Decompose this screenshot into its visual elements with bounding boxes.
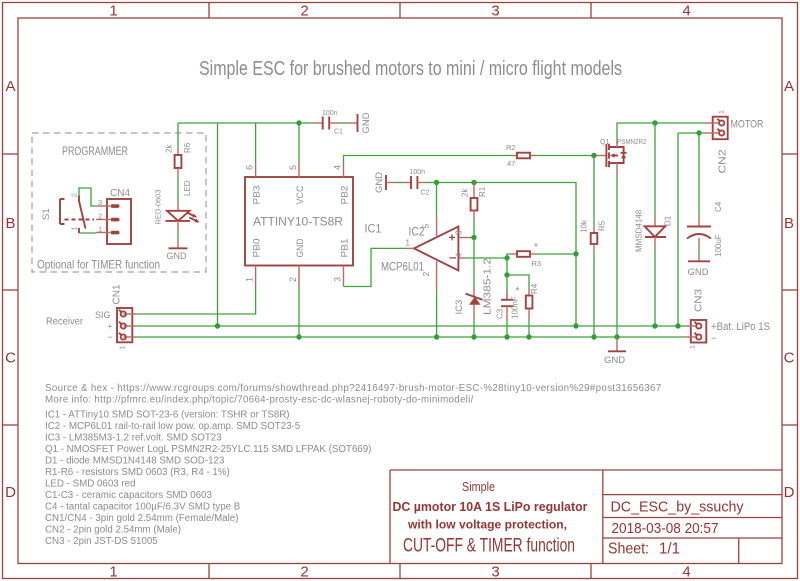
wire minus input node — [466, 254, 511, 258]
svg-text:CN4: CN4 — [110, 188, 130, 199]
junction motor minus bus — [675, 323, 680, 328]
svg-text:4: 4 — [682, 564, 690, 581]
svg-text:100nF: 100nF — [511, 296, 520, 319]
svg-text:D1: D1 — [664, 215, 673, 226]
svg-text:DC_ESC_by_ssuchy: DC_ESC_by_ssuchy — [611, 499, 744, 516]
IC1 ATtiny10 — [245, 163, 382, 287]
svg-text:5: 5 — [421, 224, 431, 229]
svg-text:GND: GND — [167, 251, 188, 261]
svg-text:2: 2 — [300, 3, 308, 20]
svg-text:−: − — [711, 334, 717, 345]
junction D1 bottom — [652, 323, 657, 328]
junction VCC link bus — [573, 323, 578, 328]
capacitor C2 — [395, 169, 437, 197]
svg-text:4: 4 — [333, 165, 343, 170]
capacitor C4 — [687, 201, 723, 257]
svg-text:CN1/CN4 - 3pin gold 2.54mm (Fe: CN1/CN4 - 3pin gold 2.54mm (Female/Male) — [45, 513, 238, 524]
svg-text:D1 - diode MMSD1N4148 SMD SOD-: D1 - diode MMSD1N4148 SMD SOD-123 — [45, 456, 224, 467]
connector CN2 motor — [705, 110, 764, 174]
svg-text:4: 4 — [682, 3, 690, 20]
wire rail to IC1 pin6 — [255, 123, 257, 163]
svg-text:2: 2 — [72, 193, 79, 197]
svg-text:PROGRAMMER: PROGRAMMER — [62, 144, 128, 158]
svg-text:IC1: IC1 — [365, 222, 382, 236]
diode D1 — [635, 123, 673, 326]
svg-text:*: * — [516, 286, 520, 297]
svg-text:CN1: CN1 — [112, 284, 123, 304]
svg-text:RED-0603: RED-0603 — [154, 189, 163, 224]
svg-text:3: 3 — [491, 564, 499, 581]
svg-text:1: 1 — [245, 277, 255, 282]
svg-text:2: 2 — [300, 564, 308, 581]
svg-text:Simple: Simple — [462, 480, 495, 494]
svg-text:R1: R1 — [478, 186, 487, 197]
svg-text:CUT-OFF & TIMER function: CUT-OFF & TIMER function — [403, 536, 575, 557]
svg-text:IC3: IC3 — [454, 300, 465, 315]
svg-text:1/1: 1/1 — [659, 541, 680, 558]
connector CN1 — [46, 284, 136, 349]
wire IC1 pin4 to gate net — [344, 156, 512, 164]
wire motor minus vertical — [677, 133, 679, 326]
junction R4 gnd — [526, 334, 531, 339]
junction C3 gnd — [504, 334, 509, 339]
ground below LED — [167, 238, 188, 261]
resistor R4 — [526, 283, 539, 337]
svg-text:A: A — [784, 78, 794, 95]
svg-text:10k: 10k — [580, 219, 589, 233]
svg-text:1: 1 — [690, 345, 697, 349]
junction C1/VCC — [296, 120, 301, 125]
junction Q1 source gnd — [614, 334, 619, 339]
resistor R5 — [580, 219, 607, 337]
svg-text:1: 1 — [719, 110, 726, 114]
wire R2 to gate junction — [536, 155, 596, 157]
wire IC1 pin2 to GND rail — [298, 286, 300, 337]
mosfet Q1 — [596, 139, 647, 177]
wire S1 top to CN4 pin3 — [79, 188, 96, 206]
zener IC3 LM385 — [454, 257, 494, 337]
wire rail to IC1 pin5 — [298, 123, 300, 163]
svg-text:PB0: PB0 — [252, 239, 263, 258]
junction R3 right / VCC link — [573, 251, 578, 256]
wire VCC link down to + bus — [575, 254, 577, 326]
svg-text:LM385-1.2: LM385-1.2 — [483, 257, 494, 315]
svg-text:Q1 - NMOSFET Power LogL PSMN2: Q1 - NMOSFET Power LogL PSMN2R2-25YLC.11… — [45, 444, 371, 455]
svg-text:DC µmotor 10A 1S LiPo regulat: DC µmotor 10A 1S LiPo regulator — [393, 500, 588, 514]
svg-text:1: 1 — [120, 346, 127, 350]
svg-text:VCC: VCC — [295, 185, 306, 204]
svg-text:R4: R4 — [530, 283, 539, 294]
svg-text:GND: GND — [604, 355, 625, 366]
svg-text:MOTOR: MOTOR — [731, 119, 764, 131]
ground at GND rail — [604, 337, 626, 366]
svg-text:−: − — [107, 332, 112, 342]
svg-text:3: 3 — [491, 3, 499, 20]
capacitor C1 — [299, 110, 348, 136]
ground at C2 — [374, 172, 395, 193]
wire C4 feed — [698, 133, 700, 216]
svg-text:2k: 2k — [461, 188, 470, 197]
svg-text:C3: C3 — [496, 308, 505, 319]
svg-text:2018-03-08 20:57: 2018-03-08 20:57 — [612, 521, 719, 537]
junction plus input node — [471, 235, 476, 240]
svg-text:2k: 2k — [165, 144, 174, 153]
svg-text:6: 6 — [245, 165, 255, 170]
svg-text:LED - SMD 0603 red: LED - SMD 0603 red — [45, 479, 136, 490]
svg-text:A: A — [5, 78, 15, 95]
capacitor C3 — [496, 275, 520, 337]
svg-text:PB2: PB2 — [340, 186, 351, 205]
wire IC2 pin5 — [436, 183, 438, 217]
svg-text:MMSD4148: MMSD4148 — [635, 209, 644, 252]
wire node to R4 — [507, 275, 529, 288]
svg-text:PB3: PB3 — [252, 186, 263, 205]
wire Q1 drain to motor rail — [617, 123, 705, 139]
svg-text:3: 3 — [98, 198, 102, 207]
LED — [154, 180, 201, 231]
svg-text:C: C — [784, 350, 795, 367]
resistor R6 — [165, 142, 193, 176]
svg-text:C2: C2 — [421, 190, 430, 197]
NOTES TEXT — [45, 383, 662, 547]
svg-text:LED: LED — [183, 180, 192, 196]
svg-text:Optional for TIMER function: Optional for TIMER function — [37, 258, 160, 272]
junction VCC feed — [215, 323, 220, 328]
svg-text:1: 1 — [72, 227, 79, 231]
programmer dashed box — [32, 133, 206, 272]
svg-text:+Bat. LiPo 1S: +Bat. LiPo 1S — [711, 321, 770, 333]
svg-text:2: 2 — [421, 272, 431, 277]
wire R6 to LED — [177, 176, 179, 201]
svg-text:CN2 - 2pin gold 2.54mm (Male): CN2 - 2pin gold 2.54mm (Male) — [45, 525, 181, 536]
svg-text:GND: GND — [361, 112, 372, 133]
svg-text:5: 5 — [288, 165, 298, 170]
wire IC2 pin2 to GND rail — [436, 290, 438, 337]
svg-text:IC3 - LM385M3-1.2 ref.volt. SM: IC3 - LM385M3-1.2 ref.volt. SMD SOT23 — [45, 433, 222, 444]
svg-text:R5: R5 — [598, 220, 607, 231]
wire LED to GND — [177, 231, 179, 238]
junction IC2 gnd — [434, 334, 439, 339]
svg-text:S1: S1 — [41, 208, 52, 220]
svg-text:B: B — [5, 215, 15, 232]
wire junction down to R5 — [593, 156, 595, 227]
wire VCC mid rail — [437, 183, 577, 255]
svg-text:1: 1 — [406, 239, 411, 248]
wire IC1 pin1 to CN1 SIG — [136, 286, 256, 314]
svg-text:with low voltage protection,: with low voltage protection, — [407, 520, 567, 532]
svg-text:CN2: CN2 — [718, 149, 729, 174]
svg-text:2: 2 — [288, 277, 298, 282]
junction gate/R5 — [591, 153, 596, 158]
svg-text:100n: 100n — [322, 110, 338, 117]
svg-text:C4 - tantal capacitor 100µF/6.: C4 - tantal capacitor 100µF/6.3V SMD typ… — [45, 502, 240, 513]
svg-text:SIG: SIG — [95, 310, 111, 320]
svg-text:GND: GND — [295, 238, 306, 257]
svg-text:More info: http://pfmrc.eu/ind: More info: http://pfmrc.eu/index.php/top… — [45, 395, 474, 406]
svg-text:Sheet:: Sheet: — [608, 541, 649, 558]
svg-text:IC2 - MCP6L01 rail-to-rail low: IC2 - MCP6L01 rail-to-rail low pow. op.a… — [45, 421, 301, 432]
svg-text:R3: R3 — [532, 259, 542, 268]
wire S1 bottom to CN4 pin1 — [79, 232, 96, 234]
resistor R1 — [461, 183, 488, 238]
svg-text:D: D — [784, 484, 795, 501]
wire VCC top rail — [178, 122, 299, 124]
svg-text:IC1 - ATTiny10 SMD SOT-23-6 (v: IC1 - ATTiny10 SMD SOT-23-6 (version: TS… — [45, 410, 290, 421]
svg-text:C4: C4 — [714, 201, 723, 212]
junction IC3 gnd — [471, 334, 476, 339]
svg-text:3: 3 — [333, 277, 343, 282]
resistor R2 — [506, 143, 536, 168]
svg-text:Source & hex - https://www.rcg: Source & hex - https://www.rcgroups.com/… — [45, 383, 662, 394]
junction IC1 gnd — [296, 334, 301, 339]
svg-text:*: * — [534, 242, 538, 253]
svg-text:2: 2 — [98, 212, 102, 221]
svg-text:ATTINY10-TS8R: ATTINY10-TS8R — [253, 215, 343, 229]
connector CN3 battery — [685, 289, 770, 349]
junction R5 gnd — [591, 334, 596, 339]
svg-text:C: C — [5, 350, 16, 367]
switch S1 — [41, 193, 94, 233]
svg-text:3: 3 — [454, 230, 464, 235]
wire VCC rail to R6 — [177, 123, 179, 147]
svg-text:1: 1 — [109, 564, 117, 581]
ground at C1 — [348, 112, 372, 133]
svg-text:R1-R6 - resistors SMD 0603 (R3: R1-R6 - resistors SMD 0603 (R3, R4 - 1%) — [45, 467, 230, 478]
junction R1 top — [471, 180, 476, 185]
svg-text:CN3 - 2pin JST-DS 51005: CN3 - 2pin JST-DS 51005 — [45, 536, 158, 547]
svg-text:CN3: CN3 — [694, 289, 705, 312]
resistor R3 — [511, 242, 576, 268]
svg-text:MCP6L01: MCP6L01 — [381, 260, 424, 274]
connector CN4 — [96, 188, 131, 244]
svg-text:C1-C3 - ceramic capacitors SMD: C1-C3 - ceramic capacitors SMD 0603 — [45, 490, 212, 501]
svg-text:B: B — [784, 215, 794, 232]
svg-text:Simple ESC for brushed motors: Simple ESC for brushed motors to mini / … — [199, 58, 622, 80]
svg-text:R6: R6 — [183, 142, 192, 153]
junction minus node — [504, 255, 509, 260]
svg-text:Receiver: Receiver — [46, 316, 83, 328]
wire Q1 source to GND rail — [616, 177, 618, 337]
junction C4 top — [696, 130, 701, 135]
TITLE BLOCK — [390, 470, 782, 564]
junction C3/R4 node — [504, 272, 509, 277]
svg-text:1: 1 — [109, 3, 117, 20]
junction IC2 supply — [434, 180, 439, 185]
svg-text:47: 47 — [507, 159, 515, 168]
svg-text:PB1: PB1 — [340, 239, 351, 258]
svg-text:GND: GND — [374, 172, 385, 193]
svg-text:GND: GND — [688, 267, 709, 278]
svg-text:D: D — [5, 484, 16, 501]
wire VCC feed down to receiver plus — [217, 123, 219, 326]
svg-text:4: 4 — [454, 253, 464, 258]
op-amp IC2 — [381, 216, 474, 290]
wire motor pin2 — [678, 132, 705, 134]
svg-text:100n: 100n — [410, 169, 426, 176]
svg-text:+: + — [107, 322, 112, 332]
GND rail (- bus) — [136, 336, 685, 338]
wire IC1 pin3 to IC2 output — [344, 248, 405, 286]
wire minus node down — [506, 258, 508, 275]
wire plus input to IC3 — [473, 238, 475, 289]
svg-text:PSMN2R2: PSMN2R2 — [617, 139, 647, 146]
svg-text:Q1: Q1 — [600, 139, 609, 146]
svg-text:1: 1 — [98, 225, 102, 234]
VCC rail (+ bus) — [136, 325, 685, 327]
ground at C4 — [688, 254, 711, 278]
svg-text:R2: R2 — [506, 143, 516, 152]
junction D1 top — [652, 120, 657, 125]
svg-text:100uF: 100uF — [714, 234, 723, 257]
svg-text:C1: C1 — [334, 129, 343, 136]
